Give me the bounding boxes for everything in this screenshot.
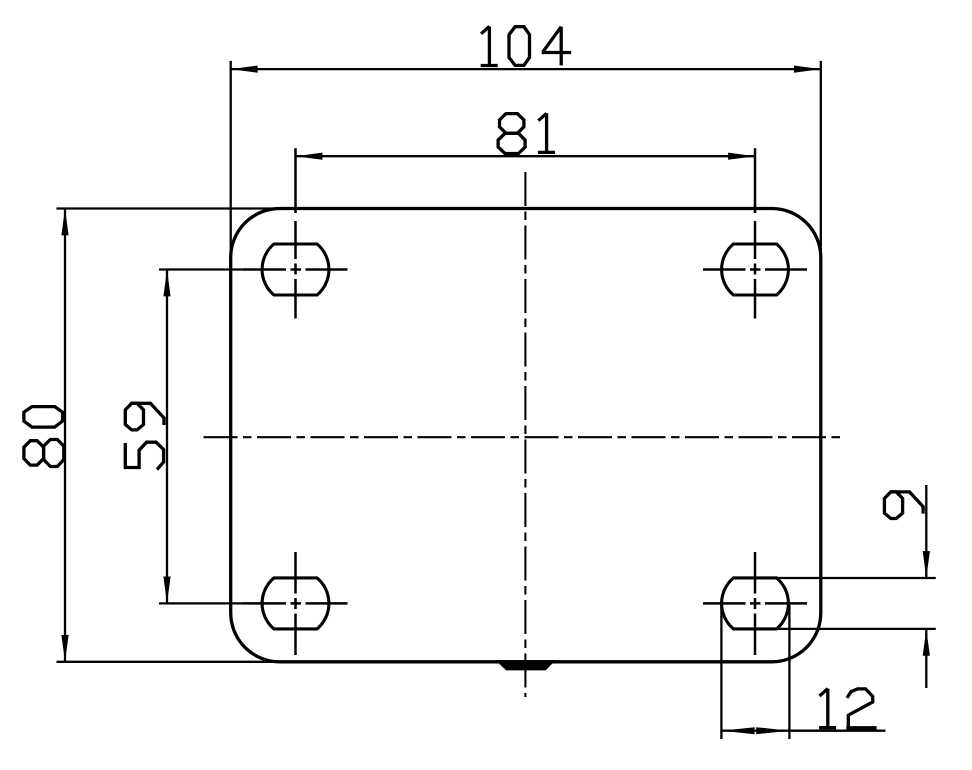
dimension 81: arrowhead left	[296, 153, 323, 160]
dimension 80: dimension line	[64, 209, 66, 662]
dimension 59: extension line top	[159, 268, 245, 270]
dimension 104: extension line left	[230, 61, 232, 260]
dimension 104: dimension line	[231, 68, 821, 70]
dimension 9: value label "9" (rotated)	[884, 492, 923, 519]
dimension 12: dimension line	[721, 730, 885, 732]
slot hole bottom-left	[262, 578, 329, 629]
center mark horizontal, slot bottom-left	[244, 602, 348, 605]
center mark vertical, slot bottom-left	[294, 552, 297, 655]
dimension 81: dimension line	[296, 155, 756, 157]
dimension 9: dimension line lower part	[925, 629, 927, 688]
bottom tab on plate lower edge	[495, 660, 556, 670]
slot hole top-right	[722, 244, 789, 295]
center mark horizontal, slot bottom-right	[703, 602, 807, 605]
dimension 104: extension line right	[820, 61, 822, 260]
slot hole bottom-right	[722, 578, 789, 629]
dimension 9: arrowhead upper (pointing down)	[923, 551, 930, 578]
dimension 9: dimension line upper part	[925, 485, 927, 578]
center mark vertical + extension line, slot top-right	[754, 148, 757, 318]
center mark horizontal, slot top-right	[703, 268, 807, 271]
dimension 12: extension line right	[788, 605, 790, 739]
dimension 9: extension line top	[777, 577, 936, 579]
dimension 59: extension line bottom	[159, 602, 245, 604]
dimension 12: arrowhead left (pointing left)	[721, 727, 754, 734]
dimension 59: arrowhead top	[163, 270, 170, 297]
center mark vertical + extension line, slot top-left	[294, 148, 297, 318]
dimension 9: extension line bottom	[777, 628, 936, 630]
dimension 80: extension line top	[57, 207, 286, 209]
dimension 12: extension line left	[720, 605, 722, 739]
dimension 104: value label "104"	[481, 26, 571, 65]
vertical centerline of plate	[524, 172, 526, 697]
dimension 80: extension line bottom	[57, 661, 286, 663]
slot hole top-left	[262, 244, 329, 295]
center mark vertical, slot bottom-right	[754, 552, 757, 655]
plate outline (104 x 80 mounting plate, rounded corners)	[231, 209, 821, 662]
dimension 80: arrowhead bottom	[61, 635, 68, 662]
dimension 9: arrowhead lower (pointing up)	[923, 629, 930, 656]
dimension 12: arrowhead right (pointing right)	[756, 727, 789, 734]
dimension 59: arrowhead bottom	[163, 577, 170, 604]
dimension 81: arrowhead right	[728, 153, 755, 160]
dimension 104: arrowhead left	[231, 66, 258, 73]
dimension 80: arrowhead top	[61, 209, 68, 236]
horizontal centerline of plate	[204, 436, 846, 438]
dimension 59: value label "59" (rotated)	[125, 403, 164, 469]
dimension 12: value label "12"	[819, 689, 877, 728]
dimension 104: arrowhead right	[794, 66, 821, 73]
center mark horizontal, slot top-left	[244, 268, 348, 271]
dimension 80: value label "80" (rotated)	[24, 407, 64, 467]
dimension 59: dimension line	[166, 270, 168, 604]
dimension 81: value label "81"	[498, 113, 555, 153]
